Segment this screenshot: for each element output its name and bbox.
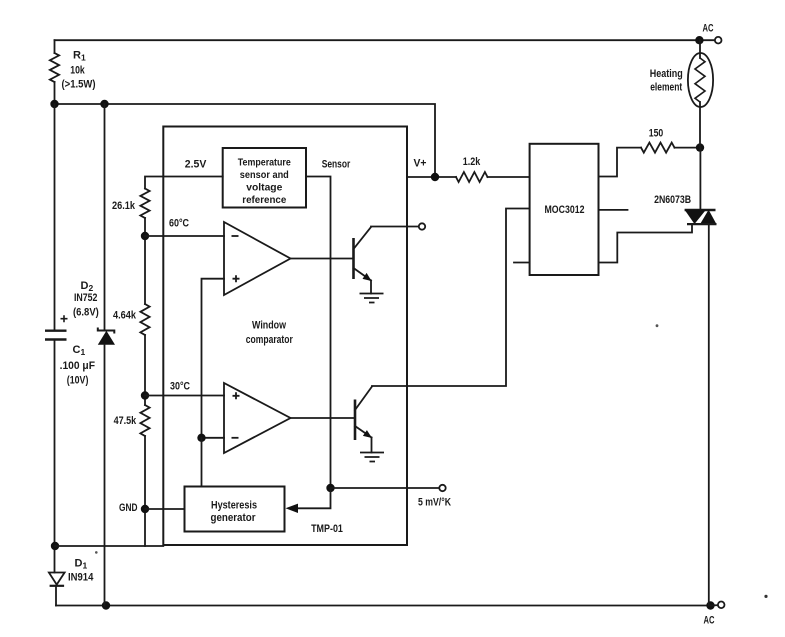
speck	[764, 595, 767, 598]
svg-text:sensor and: sensor and	[240, 169, 289, 181]
svg-text:element: element	[650, 82, 682, 94]
wire comp1 output	[291, 258, 354, 260]
resistor 47.5k	[140, 405, 149, 436]
svg-text:2.5V: 2.5V	[185, 159, 207, 171]
wire Q1 emitter to ground	[370, 281, 372, 294]
svg-text:Heating: Heating	[650, 68, 683, 80]
wire top rail	[55, 39, 700, 41]
wire comp1 plus input	[202, 279, 225, 438]
diode D1	[49, 573, 65, 585]
wire GND link	[55, 545, 163, 547]
svg-text:IN914: IN914	[68, 571, 94, 583]
terminal AC bottom	[718, 602, 725, 609]
svg-text:26.1k: 26.1k	[112, 200, 136, 212]
wire MT1	[708, 224, 710, 605]
wire comp2 output	[291, 417, 356, 419]
resistor 1.2k	[456, 172, 488, 182]
svg-text:Temperature: Temperature	[238, 156, 291, 168]
wire MOC pin right middle	[599, 209, 628, 211]
capacitor C1	[45, 330, 67, 332]
node 5mV	[326, 484, 334, 492]
resistor 4.64k	[140, 304, 149, 335]
triac 2N6073B	[685, 209, 716, 211]
terminal 5mV	[439, 485, 445, 491]
label C1 plus	[61, 315, 68, 322]
svg-text:voltage: voltage	[246, 181, 282, 193]
wire sensor line	[306, 177, 331, 489]
wire AC bottom stub	[711, 604, 718, 606]
op-amp comparator 1	[224, 222, 291, 295]
resistor 150	[641, 143, 675, 153]
svg-text:MOC3012: MOC3012	[545, 204, 585, 216]
svg-text:1.2k: 1.2k	[463, 156, 481, 168]
svg-text:Sensor: Sensor	[322, 158, 351, 170]
wire V+ rail	[55, 104, 436, 177]
wire hysteresis input arrow	[297, 488, 331, 508]
ground Q2	[360, 453, 384, 462]
svg-text:2N6073B: 2N6073B	[654, 194, 691, 206]
wire left rail lower	[54, 340, 56, 573]
wire 60C to comparator	[145, 235, 224, 237]
node GND	[141, 505, 149, 513]
svg-text:Hysteresis: Hysteresis	[211, 500, 257, 512]
node 60C	[141, 232, 149, 240]
wire MOC pin left bottom stub	[514, 262, 530, 264]
wire comp2 minus input	[202, 437, 225, 439]
transistor Q1	[352, 238, 355, 279]
svg-text:reference: reference	[242, 194, 286, 206]
node 150	[696, 143, 704, 151]
svg-text:150: 150	[649, 128, 664, 140]
node 30C	[141, 391, 149, 399]
heating element	[699, 40, 701, 58]
svg-text:AC: AC	[703, 22, 714, 34]
svg-text:generator: generator	[211, 512, 257, 524]
box hysteresis generator	[185, 487, 285, 532]
node V+	[431, 173, 439, 181]
op-amp comparator 2	[224, 383, 291, 453]
svg-text:(10V): (10V)	[67, 374, 89, 386]
wire MT2	[699, 148, 701, 210]
svg-text:comparator: comparator	[246, 334, 294, 346]
svg-text:4.64k: 4.64k	[113, 309, 137, 321]
wire left rail upper	[54, 104, 56, 330]
ground Q1	[360, 294, 384, 303]
wire hysteresis to box	[201, 438, 203, 487]
svg-text:(6.8V): (6.8V)	[73, 306, 99, 318]
wire AC top stub	[699, 39, 714, 41]
wire V+ pin	[407, 176, 456, 178]
svg-text:Window: Window	[252, 320, 286, 332]
resistor 26.1k	[140, 189, 149, 219]
diode D2 zener	[98, 328, 115, 334]
wire Q2 emitter to ground	[371, 438, 373, 453]
svg-text:(>1.5W): (>1.5W)	[62, 79, 96, 91]
node bottom AC	[706, 601, 714, 609]
wire D2 branch	[104, 104, 106, 331]
svg-text:5 mV/°K: 5 mV/°K	[418, 496, 451, 508]
terminal comp1 output	[419, 223, 425, 229]
svg-text:47.5k: 47.5k	[114, 415, 137, 427]
node hysteresis tap	[197, 434, 205, 442]
box TMP-01 outline	[163, 127, 407, 546]
svg-text:V+: V+	[414, 158, 427, 170]
box MOC3012	[530, 144, 599, 275]
wire 5mV tap	[331, 487, 440, 489]
wire MOC pin right top	[599, 148, 642, 177]
svg-text:IN752: IN752	[74, 292, 98, 304]
svg-text:60°C: 60°C	[169, 217, 189, 229]
transistor Q2	[354, 400, 357, 441]
node C	[51, 542, 59, 550]
node D	[102, 601, 110, 609]
node A	[50, 100, 58, 108]
terminal AC top	[715, 37, 722, 44]
wire MOC pin right bottom to gate	[599, 224, 693, 263]
resistor R1	[54, 40, 56, 53]
wire bottom rail	[56, 605, 711, 607]
svg-text:30°C: 30°C	[170, 380, 190, 392]
svg-text:.100 μF: .100 μF	[60, 360, 96, 372]
node B	[100, 100, 108, 108]
svg-text:10k: 10k	[70, 64, 85, 76]
box temperature sensor	[223, 148, 306, 208]
node top AC	[695, 36, 703, 44]
wire GND to hysteresis	[145, 508, 185, 510]
wire 30C to comparator	[145, 395, 224, 397]
svg-text:AC: AC	[704, 614, 715, 626]
svg-text:TMP-01: TMP-01	[311, 523, 343, 535]
wire 2.5V feed	[145, 177, 223, 189]
svg-text:GND: GND	[119, 502, 138, 514]
